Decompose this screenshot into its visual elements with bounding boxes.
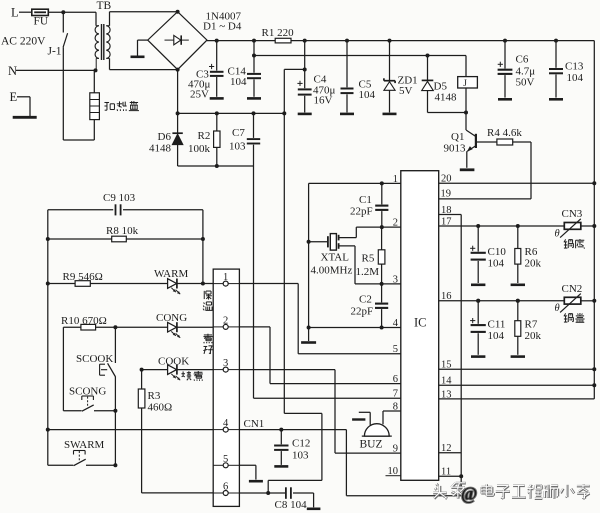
IC pin 10 stub bbox=[386, 475, 401, 477]
label R10 670ohm bbox=[61, 315, 107, 327]
switch SWARM bbox=[48, 451, 116, 466]
IC pin 6 label bbox=[393, 374, 398, 385]
svg-text:C10: C10 bbox=[488, 246, 507, 258]
svg-text:AC 220V: AC 220V bbox=[1, 36, 46, 48]
IC pin 5 label bbox=[393, 344, 398, 355]
IC pin 14 label bbox=[441, 376, 452, 387]
svg-text:TB: TB bbox=[97, 0, 112, 12]
label D5 4148 bbox=[434, 81, 458, 104]
ground under C14 bbox=[247, 97, 261, 100]
ground under R6 bbox=[511, 283, 525, 286]
resistor R9 546ohm bbox=[48, 281, 168, 287]
ground under C4 bbox=[298, 113, 312, 116]
svg-text:C12: C12 bbox=[292, 438, 310, 450]
svg-text:C9 103: C9 103 bbox=[103, 192, 136, 204]
label C10 104 bbox=[488, 246, 507, 270]
zener diode ZD1 5V bbox=[384, 39, 395, 113]
label cooking (Chinese) bbox=[181, 371, 202, 381]
wire R4 to IC pin19 bbox=[439, 142, 531, 199]
svg-text:Q1: Q1 bbox=[451, 131, 464, 143]
capacitor C3 470u/25V bbox=[209, 39, 224, 97]
label C4 470u 16V bbox=[313, 74, 336, 107]
svg-text:SCOOK: SCOOK bbox=[76, 353, 113, 365]
svg-text:L: L bbox=[11, 6, 19, 20]
IC pin 7 label bbox=[393, 389, 398, 400]
ground at bridge left bbox=[131, 40, 148, 57]
wire main supply rail bbox=[207, 40, 594, 42]
label BUZ bbox=[360, 439, 383, 451]
svg-text:CN2: CN2 bbox=[562, 283, 583, 295]
svg-text:N: N bbox=[8, 64, 17, 78]
IC pin 12 wire bbox=[439, 452, 462, 454]
ground under ZD1 bbox=[383, 113, 397, 116]
wire IC pin8 to buzzer bbox=[383, 411, 401, 424]
IC pin 14 wire bbox=[439, 383, 597, 387]
svg-text:5: 5 bbox=[223, 454, 228, 465]
label C9 103 bbox=[103, 192, 136, 204]
svg-text:104: 104 bbox=[359, 89, 376, 101]
wire CN1 pin1 to IC pin5 bbox=[239, 284, 400, 354]
label C5 104 bbox=[359, 79, 376, 102]
svg-text:XTAL: XTAL bbox=[321, 252, 350, 264]
label R7 20k bbox=[525, 319, 542, 343]
wire IC pin11/12 to CN1 pin4 (bottom) bbox=[346, 495, 461, 497]
IC pin 3 label bbox=[393, 274, 398, 285]
svg-text:1: 1 bbox=[393, 174, 398, 185]
transformer TB bbox=[95, 0, 111, 60]
svg-text:C7: C7 bbox=[232, 127, 245, 139]
thermistor CN3 (pot-bottom sensor) bbox=[555, 208, 583, 240]
label pot-bottom (Chinese) bbox=[564, 239, 585, 249]
IC pin 16 label bbox=[441, 291, 452, 302]
svg-text:22pF: 22pF bbox=[350, 206, 373, 218]
svg-text:5: 5 bbox=[393, 344, 398, 355]
label C6 4.7u 50V bbox=[516, 54, 536, 89]
svg-text:FU: FU bbox=[34, 16, 49, 28]
IC pin 15 wire bbox=[439, 367, 597, 371]
label ZD1 5V bbox=[398, 75, 418, 98]
label C8 104 bbox=[275, 499, 308, 511]
svg-text:13: 13 bbox=[441, 389, 452, 400]
wire block bottom rail bbox=[178, 164, 254, 168]
resistor R6 20k bbox=[515, 226, 521, 283]
svg-text:R5: R5 bbox=[362, 253, 375, 265]
IC pin 4 label bbox=[393, 318, 399, 329]
thermistor CN2 (pot-lid sensor) bbox=[555, 283, 583, 314]
wire left column down bbox=[46, 239, 50, 465]
connector CN1 body bbox=[213, 269, 239, 506]
svg-text:R6: R6 bbox=[525, 246, 538, 258]
IC pin 16 wire (CN2 row) bbox=[439, 299, 597, 303]
svg-text:R9 546Ω: R9 546Ω bbox=[63, 271, 103, 283]
svg-text:1: 1 bbox=[223, 272, 228, 283]
svg-text:SWARM: SWARM bbox=[64, 439, 105, 451]
label SCOOK bbox=[76, 353, 113, 365]
wire IC pin3 row bbox=[355, 282, 401, 286]
svg-text:17: 17 bbox=[441, 216, 452, 227]
svg-text:IC: IC bbox=[414, 316, 427, 330]
svg-text:C1: C1 bbox=[359, 194, 372, 206]
wire rail right edge down (VDD column) bbox=[593, 41, 595, 399]
resistor R4 4.6k bbox=[477, 127, 531, 145]
svg-text:20k: 20k bbox=[525, 258, 542, 270]
label 1N4007 D1-D4 bbox=[203, 11, 242, 33]
svg-text:C8 104: C8 104 bbox=[275, 499, 308, 511]
resistor R3 460ohm bbox=[138, 370, 145, 493]
ground under R7 bbox=[511, 355, 525, 358]
svg-text:8: 8 bbox=[393, 401, 398, 412]
capacitor C7 103 bbox=[247, 113, 260, 166]
svg-text:5V: 5V bbox=[399, 85, 413, 97]
capacitor C5 104 bbox=[341, 39, 354, 113]
crystal XTAL 4.00MHz bbox=[307, 234, 355, 284]
wire R10 left corner down bbox=[62, 327, 64, 411]
svg-text:4: 4 bbox=[223, 418, 229, 429]
ground at Q1 emitter bbox=[460, 168, 475, 171]
capacitor C1 22pF bbox=[375, 181, 388, 229]
ground under C6 bbox=[498, 98, 512, 101]
capacitor C4 470u/16V bbox=[297, 39, 311, 113]
capacitor C14 104 bbox=[247, 39, 261, 97]
watermark author (Chinese) bbox=[461, 484, 590, 504]
ground under C8 bbox=[307, 507, 321, 510]
switch SCOOK bbox=[100, 327, 116, 411]
CN1 pin 3 bbox=[213, 358, 239, 372]
fuse FU bbox=[32, 9, 49, 27]
label C14 104 bbox=[228, 66, 248, 89]
capacitor C8 104 bbox=[286, 487, 314, 507]
label heating-plate (Chinese) bbox=[104, 101, 139, 111]
ground at pin1/pin4 column bbox=[308, 328, 310, 342]
svg-text:9: 9 bbox=[393, 444, 398, 455]
svg-text:1.2M: 1.2M bbox=[356, 266, 380, 278]
ground under C11 bbox=[471, 355, 485, 358]
CN1 pin 4 bbox=[213, 418, 239, 432]
CN1 pin 1 bbox=[213, 272, 239, 286]
label pot-lid (Chinese) bbox=[564, 313, 585, 322]
wire CN1 pin3 to IC pin9 bbox=[239, 370, 400, 454]
wire primary bottom to N bbox=[96, 26, 99, 71]
IC pin 11 label bbox=[441, 467, 451, 478]
svg-text:104: 104 bbox=[488, 330, 505, 342]
svg-text:3: 3 bbox=[393, 274, 398, 285]
label CONG bbox=[156, 312, 187, 324]
IC pin 13 label bbox=[441, 389, 452, 400]
wire IC pin1 to ground column bbox=[309, 183, 401, 327]
label R8 10k bbox=[106, 225, 139, 237]
op-amp/controller IC (20-pin) bbox=[401, 171, 439, 481]
wire +5V column down (C4 branch) bbox=[282, 69, 304, 413]
svg-text:D6: D6 bbox=[158, 131, 172, 143]
svg-text:103: 103 bbox=[229, 141, 246, 153]
svg-text:C2: C2 bbox=[359, 294, 372, 306]
label R9 546ohm bbox=[63, 271, 103, 283]
diode D6 4148 bbox=[172, 133, 182, 166]
wire C7 column down to IC pin7 bbox=[254, 166, 401, 398]
ground under C3 bbox=[210, 97, 224, 100]
wire secondary bottom to bridge bbox=[106, 58, 177, 69]
label R5 1.2M bbox=[356, 253, 380, 279]
svg-text:18: 18 bbox=[441, 205, 452, 216]
svg-text:104: 104 bbox=[567, 72, 584, 84]
svg-text:19: 19 bbox=[441, 189, 452, 200]
IC pin 18 wire bbox=[439, 215, 462, 496]
CN1 pin 2 bbox=[213, 315, 239, 329]
svg-text:C11: C11 bbox=[488, 319, 506, 331]
label D6 4148 bbox=[149, 131, 172, 155]
switch SCONG bbox=[63, 396, 117, 413]
label C12 103 bbox=[292, 438, 310, 462]
resistor R7 20k bbox=[515, 299, 521, 355]
label SWARM bbox=[64, 439, 105, 451]
buzzer BUZ bbox=[352, 412, 392, 436]
svg-text:CN3: CN3 bbox=[562, 208, 583, 220]
label C3 470u 25V bbox=[188, 69, 211, 101]
svg-text:4.00MHz: 4.00MHz bbox=[311, 265, 353, 277]
svg-text:4148: 4148 bbox=[149, 143, 172, 155]
label Q1 9013 bbox=[444, 131, 467, 155]
wire block top rail bbox=[176, 111, 285, 115]
ground at CN1 pin5 bbox=[249, 480, 263, 483]
svg-text:θ: θ bbox=[555, 229, 560, 240]
svg-text:D1 ~ D4: D1 ~ D4 bbox=[203, 21, 242, 33]
IC pin 9 label bbox=[393, 444, 398, 455]
capacitor C11 104 bbox=[470, 299, 486, 355]
label C11 104 bbox=[488, 319, 506, 343]
svg-text:12: 12 bbox=[441, 443, 452, 454]
svg-text:2: 2 bbox=[223, 315, 228, 326]
wire CN1 pin2 to IC pin6 bbox=[239, 327, 400, 384]
diode D5 4148 bbox=[422, 54, 466, 113]
wire switch column down to row5 bbox=[113, 411, 117, 468]
label C1 22pF bbox=[350, 194, 373, 218]
capacitor C2 22pF bbox=[375, 284, 388, 330]
svg-text:J-1: J-1 bbox=[48, 46, 62, 58]
label R2 100k bbox=[188, 130, 211, 155]
IC pin 20 wire (VDD) bbox=[439, 181, 597, 185]
wire IC pin4 row bbox=[307, 326, 401, 330]
svg-text:C13: C13 bbox=[565, 61, 584, 73]
wire bridge bottom to D6 block bbox=[177, 70, 179, 133]
node E (earth terminal) bbox=[10, 90, 31, 116]
svg-text:11: 11 bbox=[441, 467, 451, 478]
svg-text:@: @ bbox=[461, 484, 477, 504]
LED COOK (cooking indicator) bbox=[140, 365, 214, 381]
svg-text:R8 10k: R8 10k bbox=[106, 225, 139, 237]
svg-text:E: E bbox=[10, 90, 18, 104]
svg-text:10: 10 bbox=[388, 466, 399, 477]
svg-text:20k: 20k bbox=[525, 330, 542, 342]
resistor R10 670ohm bbox=[63, 324, 168, 330]
wire R8 column down to WARM row bbox=[201, 239, 205, 286]
transistor Q1 9013 bbox=[466, 113, 476, 168]
wire L to transformer bbox=[48, 12, 96, 26]
bridge rectifier D1-D4 (1N4007) bbox=[148, 10, 207, 72]
wire J-1 to heater bottom bbox=[63, 47, 94, 140]
ground under C12 bbox=[274, 465, 288, 468]
label WARM bbox=[154, 268, 188, 280]
svg-text:104: 104 bbox=[230, 76, 247, 88]
svg-text:COOK: COOK bbox=[158, 356, 189, 368]
svg-text:6: 6 bbox=[223, 482, 228, 493]
svg-text:50V: 50V bbox=[516, 77, 535, 89]
svg-text:9013: 9013 bbox=[444, 143, 467, 155]
node N (AC neutral) bbox=[8, 64, 98, 78]
IC pin 1 label bbox=[393, 174, 398, 185]
svg-text:C6: C6 bbox=[516, 54, 529, 66]
node L (AC live terminal) bbox=[11, 6, 32, 20]
svg-text:22pF: 22pF bbox=[351, 306, 374, 318]
svg-text:7: 7 bbox=[393, 389, 398, 400]
svg-text:R1 220: R1 220 bbox=[262, 27, 295, 39]
wire pre-R1 tap line bbox=[252, 54, 466, 58]
CN1 pin 5 bbox=[213, 454, 239, 468]
svg-text:R3: R3 bbox=[148, 390, 161, 402]
node junction L/J-1 bbox=[61, 10, 65, 14]
IC pin 20 label bbox=[441, 174, 452, 185]
svg-text:6: 6 bbox=[393, 374, 398, 385]
capacitor C6 4.7u/50V bbox=[498, 39, 513, 98]
svg-text:R7: R7 bbox=[525, 319, 538, 331]
IC pin 8 label bbox=[393, 401, 398, 412]
svg-text:4148: 4148 bbox=[435, 92, 458, 104]
wire CN1 pin4 row bbox=[48, 430, 347, 496]
resistor R8 10k bbox=[46, 236, 205, 242]
resistor R1 220 bbox=[262, 27, 295, 43]
IC pin 13 wire bbox=[439, 398, 595, 400]
label R6 20k bbox=[525, 246, 542, 270]
ground (earth bar) bbox=[13, 116, 37, 119]
label keep-warm (Chinese vertical) bbox=[203, 291, 213, 311]
svg-text:θ: θ bbox=[555, 303, 560, 314]
svg-text:CN1: CN1 bbox=[244, 418, 265, 430]
IC pin 18 label bbox=[441, 205, 452, 216]
svg-text:460Ω: 460Ω bbox=[148, 402, 173, 414]
label CN1 bbox=[244, 418, 265, 430]
ground under C10 bbox=[471, 283, 485, 286]
label C2 22pF bbox=[351, 294, 374, 318]
IC pin 2 label bbox=[393, 218, 398, 229]
LED CONG (cooked indicator) bbox=[168, 322, 214, 338]
wire IC pin2 to crystal bbox=[340, 227, 401, 238]
svg-text:4: 4 bbox=[393, 318, 399, 329]
svg-text:16: 16 bbox=[441, 291, 452, 302]
label C7 103 bbox=[229, 127, 246, 153]
label XTAL 4.00MHz bbox=[311, 252, 353, 277]
svg-text:20: 20 bbox=[441, 174, 452, 185]
capacitor C12 103 bbox=[274, 428, 288, 465]
switch J-1 bbox=[48, 12, 68, 57]
relay J coil bbox=[458, 56, 478, 115]
label cooked (Chinese vertical) bbox=[203, 334, 212, 354]
watermark toutiao logo (Chinese) bbox=[433, 483, 466, 499]
IC pin 10 label bbox=[388, 466, 399, 477]
LED WARM (keep-warm indicator) bbox=[168, 279, 214, 295]
heater element (heating plate) bbox=[90, 70, 100, 119]
wire secondary top to bridge bbox=[106, 12, 177, 26]
svg-text:CONG: CONG bbox=[156, 312, 187, 324]
label R3 460ohm bbox=[148, 390, 173, 414]
resistor R5 1.2M bbox=[378, 227, 385, 284]
IC pin 11 wire bbox=[439, 474, 464, 478]
label COOK bbox=[158, 356, 189, 368]
capacitor C13 104 bbox=[549, 39, 563, 98]
svg-text:15: 15 bbox=[441, 360, 452, 371]
IC pin 17 wire (CN3 row) bbox=[439, 224, 597, 228]
label AC 220V bbox=[1, 36, 46, 48]
IC pin 17 label bbox=[441, 216, 452, 227]
svg-text:103: 103 bbox=[292, 450, 309, 462]
capacitor C9 103 bbox=[48, 204, 203, 239]
svg-text:104: 104 bbox=[488, 258, 505, 270]
ground under C13 bbox=[549, 98, 563, 101]
svg-text:R4 4.6k: R4 4.6k bbox=[487, 127, 522, 139]
svg-text:WARM: WARM bbox=[154, 268, 188, 280]
svg-text:16V: 16V bbox=[314, 95, 333, 107]
svg-text:25V: 25V bbox=[190, 89, 209, 101]
label C13 104 bbox=[565, 61, 584, 85]
wire CN1 pin6 row bbox=[142, 491, 286, 495]
label SCONG bbox=[69, 386, 106, 398]
svg-text:14: 14 bbox=[441, 376, 452, 387]
svg-text:J: J bbox=[463, 79, 467, 89]
IC pin 12 label bbox=[441, 443, 452, 454]
svg-text:SCONG: SCONG bbox=[69, 386, 106, 398]
IC pin 19 label bbox=[441, 189, 452, 200]
IC pin 15 label bbox=[441, 360, 452, 371]
wire CN1 pin5 to ground bbox=[239, 465, 256, 479]
svg-text:BUZ: BUZ bbox=[360, 439, 383, 451]
wire +5V branch to CN1 pin6 row bbox=[268, 413, 322, 493]
capacitor C10 104 bbox=[470, 226, 486, 283]
ground under C5 bbox=[340, 113, 354, 116]
svg-text:R2: R2 bbox=[198, 130, 211, 142]
resistor R2 100k bbox=[214, 113, 220, 166]
svg-text:3: 3 bbox=[223, 358, 228, 369]
svg-text:100k: 100k bbox=[188, 143, 211, 155]
svg-text:R10 670Ω: R10 670Ω bbox=[61, 315, 107, 327]
CN1 pin 6 bbox=[213, 482, 239, 496]
svg-text:2: 2 bbox=[393, 218, 398, 229]
